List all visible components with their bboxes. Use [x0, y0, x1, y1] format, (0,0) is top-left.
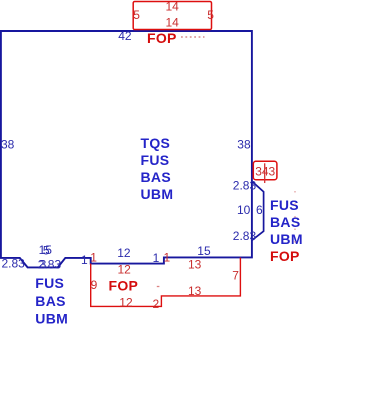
annex outline bottom (red): [91, 258, 241, 307]
svg-text:BAS: BAS: [141, 169, 171, 185]
building outline main (blue): [1, 31, 252, 267]
svg-text:FOP: FOP: [109, 277, 139, 293]
svg-text:14: 14: [166, 0, 180, 14]
svg-text:13: 13: [188, 284, 202, 298]
dotted leader from FOP top: [181, 36, 205, 38]
svg-text:1: 1: [153, 251, 160, 265]
svg-text:UBM: UBM: [141, 186, 174, 202]
svg-text:1: 1: [90, 251, 97, 265]
svg-text:10: 10: [237, 203, 251, 217]
svg-text:BAS: BAS: [35, 293, 65, 309]
svg-text:12: 12: [119, 296, 133, 310]
svg-text:5: 5: [133, 8, 140, 22]
svg-text:2.83: 2.83: [233, 179, 257, 193]
svg-text:FOP: FOP: [147, 30, 177, 46]
svg-text:2.83: 2.83: [233, 229, 257, 243]
svg-text:12: 12: [117, 246, 131, 260]
svg-text:14: 14: [166, 15, 180, 29]
dotted leader vertical right: [294, 191, 296, 249]
svg-text:38: 38: [1, 137, 15, 151]
svg-text:1: 1: [164, 251, 171, 265]
svg-text:UBM: UBM: [270, 231, 303, 247]
svg-text:343: 343: [255, 165, 275, 179]
svg-text:13: 13: [188, 258, 202, 272]
svg-text:6: 6: [256, 203, 263, 217]
svg-text:TQS: TQS: [141, 135, 171, 151]
svg-text:7: 7: [232, 269, 239, 283]
leader line through 343: [264, 163, 266, 183]
svg-text:38: 38: [237, 137, 251, 151]
svg-text:3: 3: [40, 257, 47, 271]
svg-text:1: 1: [81, 253, 88, 267]
svg-text:42: 42: [118, 29, 132, 43]
svg-text:2.83: 2.83: [2, 257, 26, 271]
dotted leader from FOP bottom: [157, 286, 160, 288]
svg-text:FOP: FOP: [270, 248, 300, 264]
svg-text:FUS: FUS: [35, 275, 64, 291]
svg-text:15: 15: [197, 244, 211, 258]
annotation box 343 (red): [253, 161, 277, 179]
annex box top (red): [133, 2, 211, 30]
svg-text:FUS: FUS: [141, 152, 170, 168]
svg-text:5: 5: [207, 8, 214, 22]
svg-text:BAS: BAS: [270, 214, 300, 230]
svg-text:9: 9: [91, 278, 98, 292]
svg-text:5: 5: [43, 243, 50, 257]
svg-text:12: 12: [118, 262, 132, 276]
svg-text:2: 2: [153, 297, 160, 311]
svg-text:UBM: UBM: [35, 310, 68, 326]
bay bump on right wall (blue): [252, 181, 264, 240]
